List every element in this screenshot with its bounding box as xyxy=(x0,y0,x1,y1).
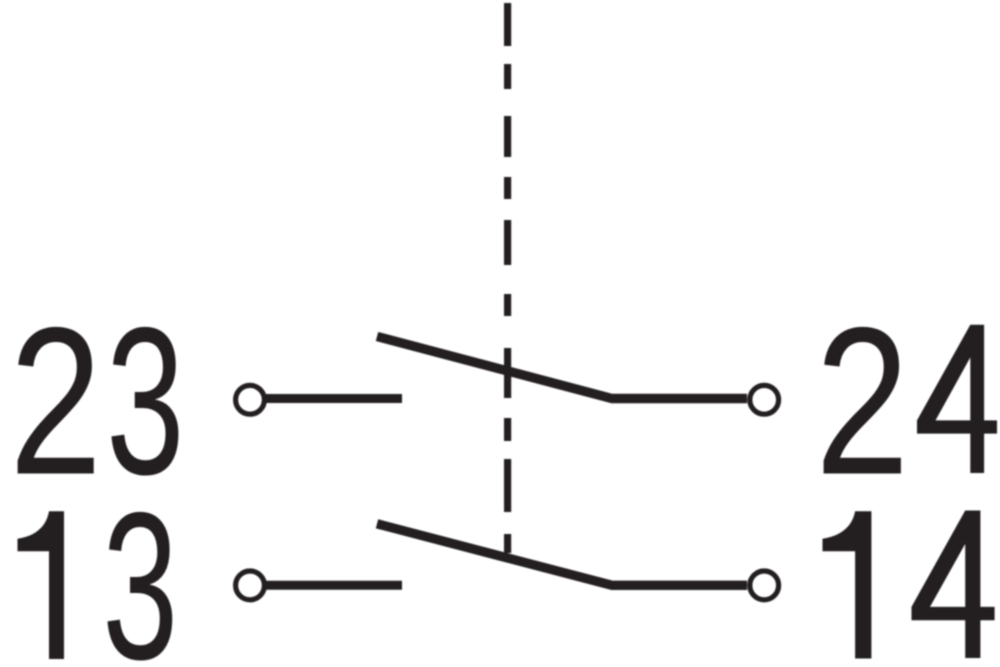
terminal circle 24 xyxy=(750,385,779,414)
actuator centerline (dashed) xyxy=(504,3,511,553)
terminal label 23 xyxy=(9,283,184,519)
contact 13-14: moving blade and right wire xyxy=(377,524,747,586)
contact 13-14: left fixed terminal wire xyxy=(266,581,402,590)
contact 23-24: moving blade and right wire xyxy=(377,337,747,399)
terminal label 14 xyxy=(823,511,995,659)
terminal circle 23 xyxy=(236,385,265,414)
terminal label 13 xyxy=(18,469,179,667)
svg-text:2: 2 xyxy=(9,284,102,519)
contact 23-24: left fixed terminal wire xyxy=(266,394,402,403)
terminal circle 14 xyxy=(750,571,779,600)
svg-text:2: 2 xyxy=(815,284,909,518)
terminal circle 13 xyxy=(236,571,265,600)
svg-text:3: 3 xyxy=(102,469,178,667)
terminal label 24 xyxy=(815,284,997,518)
